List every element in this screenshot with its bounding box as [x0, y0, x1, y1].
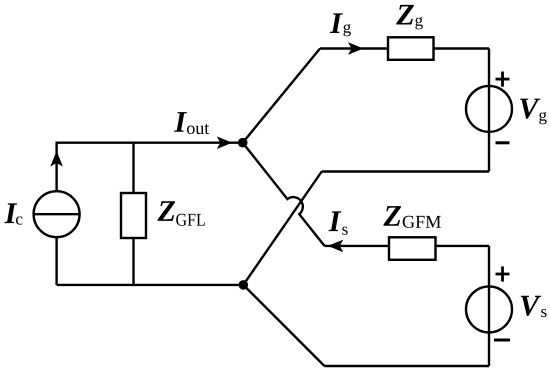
current source Ic circle: [34, 191, 80, 237]
wire right rail upper (through Vg): [488, 49, 490, 172]
wire Ig horizontal left of Zg: [320, 47, 388, 49]
wire left rail lower: [55, 237, 57, 285]
label Z_GFL: [158, 201, 176, 221]
wire top-left horizontal (Iout wire): [57, 141, 238, 143]
minus sign Vs: [494, 339, 510, 342]
wire Z_GFL branch upper: [132, 143, 134, 193]
arrow Iout (right): [217, 136, 233, 149]
label Z_GFM: [383, 206, 401, 226]
node top junction dot: [238, 138, 248, 148]
label Ic: [4, 203, 17, 223]
voltage source Vs circle: [466, 286, 512, 332]
arrow Ig (right): [348, 42, 364, 55]
plus sign Vs: [496, 266, 510, 281]
label Vg: [520, 99, 540, 119]
label Iout: [174, 112, 187, 132]
voltage source Vg circle: [466, 86, 512, 132]
wire left rail upper: [55, 142, 57, 192]
label Vs: [521, 296, 541, 316]
impedance Zg box: [388, 37, 434, 60]
wire diagonal top node to Ig corner: [243, 49, 320, 143]
wire right rail lower (through Vs): [488, 246, 490, 366]
label Is: [328, 211, 341, 231]
label Zg: [396, 5, 414, 25]
current source Ic horizontal bar: [34, 213, 80, 215]
wire Zg to right rail: [434, 47, 490, 49]
wire diagonal Vg return to bottom node: [243, 172, 321, 285]
wire diagonal top node to Is corner with hop: [243, 143, 325, 246]
impedance Z_GFM box: [389, 237, 436, 259]
plus sign Vg: [496, 72, 510, 87]
wire Is horizontal left of Z_GFM: [325, 245, 390, 247]
impedance Z_GFL box: [121, 193, 146, 238]
arrow Ic (up): [50, 151, 63, 167]
wire bottom-left horizontal: [57, 284, 244, 286]
minus sign Vg: [496, 141, 510, 144]
label Ig: [330, 13, 343, 33]
node bottom junction dot: [239, 280, 249, 290]
wire diagonal bottom corner to bottom node: [243, 285, 324, 366]
wire Z_GFM to right rail: [436, 245, 490, 247]
arrow Is (left): [328, 240, 344, 253]
wire bottom horizontal: [324, 365, 489, 367]
wire mid horizontal (Vg return): [322, 170, 489, 172]
wire Z_GFL branch lower: [132, 238, 134, 285]
